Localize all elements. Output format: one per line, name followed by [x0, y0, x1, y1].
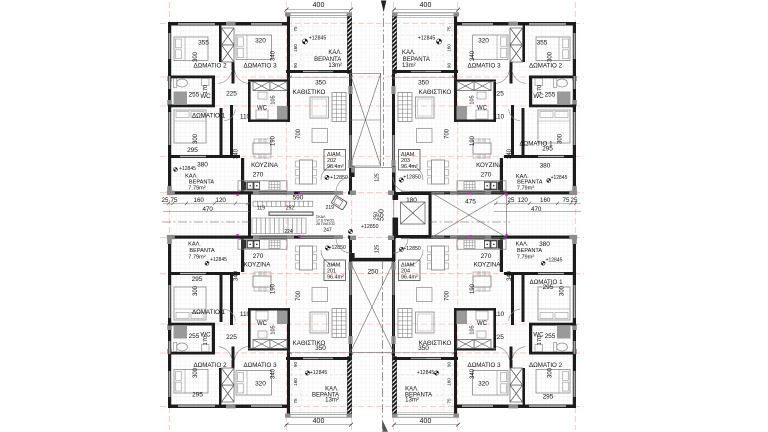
apt 204 wc1 fixtures	[553, 343, 567, 352]
apt 201 wall wc/bedroom1	[168, 323, 215, 326]
apt 202 veranda 7.79 end wall	[168, 191, 252, 194]
elevator shaft	[396, 192, 432, 195]
apt 201 entry door leaf	[350, 239, 352, 254]
apt 203 wardrobe corridor	[474, 82, 491, 91]
svg-text:590: 590	[293, 195, 304, 202]
apt 202 coffee table	[312, 129, 328, 143]
svg-text:ΔΩΜΑΤΙΟ 2: ΔΩΜΑΤΙΟ 2	[529, 62, 563, 69]
apt 203 wall wc/bedroom1	[529, 105, 576, 108]
svg-text:190: 190	[470, 135, 476, 146]
svg-text:105: 105	[271, 95, 277, 104]
apt 204 bookshelf	[398, 309, 412, 338]
apt 201 bedroom door mullion + arcs	[232, 347, 235, 369]
svg-text:96.4m²: 96.4m²	[401, 164, 418, 170]
apt 201 wc2 walls	[248, 348, 288, 350]
svg-text:WC: WC	[257, 321, 268, 327]
apt 201 veranda/living wall with sliding door	[286, 357, 352, 360]
apt 203 outer side wall	[573, 22, 576, 192]
svg-text:190: 190	[271, 283, 277, 294]
svg-text:224: 224	[284, 229, 293, 235]
svg-text:ΔΩΜΑΤΙΟ 2: ΔΩΜΑΤΙΟ 2	[529, 362, 563, 369]
svg-text:255: 255	[545, 333, 556, 340]
apt 203 veranda hatched side wall	[392, 17, 396, 74]
svg-text:25: 25	[162, 197, 169, 204]
svg-text:WC: WC	[477, 321, 488, 327]
apt 204 veranda/living wall with sliding door	[393, 357, 459, 360]
svg-text:700: 700	[444, 290, 450, 301]
apt 202 wardrobe rooms2-3	[222, 28, 235, 45]
svg-text:ΚΑΛ.: ΚΑΛ.	[328, 50, 342, 56]
svg-text:250: 250	[368, 269, 379, 276]
apt 204 coffee table	[417, 288, 433, 302]
svg-text:90: 90	[293, 63, 298, 69]
apt 201 veranda 13m2 railing	[286, 416, 352, 418]
apt 203 front (outer) wall	[454, 22, 576, 26]
svg-text:340: 340	[234, 148, 240, 159]
svg-text:170: 170	[537, 336, 543, 345]
apt 203 bed room3	[473, 35, 509, 60]
svg-text:270: 270	[481, 172, 492, 179]
apt 202 wc1 fixtures	[173, 79, 187, 88]
apt 202 id box	[324, 150, 346, 171]
apt 204 veranda 13m2 railing	[393, 416, 459, 418]
svg-text:295: 295	[542, 146, 553, 153]
apt 201 outer side wall	[168, 238, 171, 408]
apt 201 bed room1	[174, 287, 206, 320]
apt 204 sink	[484, 240, 497, 249]
apt 204 east wall (living, to court)	[392, 236, 395, 357]
svg-text:90: 90	[293, 362, 298, 368]
svg-text:295: 295	[543, 394, 554, 401]
svg-text:270: 270	[481, 253, 492, 260]
svg-text:ΚΑΘΙΣΤΙΚΟ: ΚΑΘΙΣΤΙΚΟ	[419, 89, 452, 96]
apt 203 wc2 fixtures	[477, 92, 486, 99]
svg-text:170: 170	[537, 85, 543, 94]
apartment 202 (TL quadrant)	[167, 2, 353, 195]
apt 201 wardrobe corridor	[253, 340, 270, 349]
svg-text:75: 75	[293, 398, 298, 404]
svg-text:700: 700	[296, 128, 302, 139]
svg-text:170: 170	[203, 85, 209, 94]
apt 204 dining table	[432, 246, 445, 270]
apt 202 veranda/living wall with sliding door	[286, 70, 352, 73]
svg-text:160: 160	[446, 378, 451, 386]
svg-text:160: 160	[293, 378, 298, 386]
svg-text:340: 340	[507, 270, 513, 281]
svg-text:320: 320	[255, 38, 266, 45]
apt 203 door arcs	[408, 165, 423, 180]
svg-text:110: 110	[240, 311, 251, 318]
svg-text:75: 75	[446, 26, 451, 32]
apt 202 outer side wall	[168, 22, 171, 192]
entry door arcs + labels	[336, 177, 351, 192]
apt 201 bed room2	[174, 370, 208, 394]
svg-text:ΚΟΥΖΙΝΑ: ΚΟΥΖΙΝΑ	[476, 162, 504, 169]
svg-text:300: 300	[193, 133, 199, 144]
svg-text:13m²: 13m²	[325, 398, 339, 404]
svg-text:+12850: +12850	[403, 175, 421, 181]
svg-text:+12845: +12845	[417, 370, 435, 376]
svg-text:160: 160	[540, 197, 551, 204]
apt 202 wc2 walls	[248, 80, 288, 82]
central stair hall walls	[162, 1, 582, 432]
stair handrail	[269, 212, 313, 215]
apt 202 sink	[247, 182, 260, 191]
svg-text:300: 300	[547, 51, 553, 62]
dimension band right	[494, 204, 581, 212]
svg-text:400: 400	[420, 418, 432, 425]
svg-text:ΔΩΜΑΤΙΟ 3: ΔΩΜΑΤΙΟ 3	[243, 362, 277, 369]
apartment 201 (BL quadrant)	[167, 235, 353, 425]
svg-text:96.4m²: 96.4m²	[401, 275, 418, 281]
apt 201 fridge	[241, 240, 247, 249]
svg-text:225: 225	[226, 91, 237, 98]
apt 204 living room west wall	[454, 340, 457, 408]
apt 202 living room west wall	[287, 22, 290, 90]
svg-text:320: 320	[478, 38, 489, 45]
svg-text:295: 295	[187, 147, 198, 154]
apt 203 dining table	[432, 160, 445, 184]
apt 201 dining table	[300, 246, 313, 270]
apt 201 wardrobe rooms2-3	[222, 385, 235, 402]
apt 203 veranda dashed floor lines	[451, 19, 453, 69]
apt 203 veranda 13m2 railing	[393, 12, 459, 14]
svg-text:ΚΑΘΙΣΤΙΚΟ: ΚΑΘΙΣΤΙΚΟ	[293, 89, 326, 96]
svg-text:125: 125	[375, 173, 381, 182]
svg-text:105: 105	[271, 325, 277, 334]
apt 202 wall bedroom1/veranda	[168, 155, 240, 158]
apt 201 coffee table	[312, 288, 328, 302]
apt 201 sink	[247, 240, 260, 249]
svg-text:300: 300	[560, 285, 566, 296]
svg-text:ΔΩΜΑΤΙΟ 3: ΔΩΜΑΤΙΟ 3	[467, 62, 501, 69]
svg-text:340: 340	[470, 50, 476, 61]
apt 201 sofa	[310, 312, 329, 333]
svg-text:190: 190	[470, 283, 476, 294]
apt 203 kitchen table	[473, 143, 491, 154]
svg-text:340: 340	[507, 148, 513, 159]
svg-text:470: 470	[203, 206, 214, 213]
apt 201 veranda hatched side wall	[347, 357, 351, 414]
svg-text:160: 160	[446, 44, 451, 52]
svg-text:+12845: +12845	[210, 257, 227, 263]
svg-text:225: 225	[493, 334, 504, 341]
apt 201 bed room3	[236, 371, 272, 396]
apt 201 stove	[269, 240, 280, 249]
apt 202 east wall (living, to court)	[349, 73, 352, 194]
svg-text:ΒΕΡΑΝΤΑ: ΒΕΡΑΝΤΑ	[314, 57, 341, 63]
apt 204 veranda dashed floor lines	[451, 361, 453, 411]
apt 204 bed room2	[536, 370, 570, 394]
apt 204 veranda hatched side wall	[392, 357, 396, 414]
apt 201 id box	[324, 260, 346, 281]
svg-text:219: 219	[326, 205, 335, 211]
apt 203 wc1 fixtures	[553, 79, 567, 88]
south flag	[383, 421, 388, 432]
svg-text:ΚΑΘΙΣΤΙΚΟ: ΚΑΘΙΣΤΙΚΟ	[293, 340, 326, 347]
svg-text:120: 120	[518, 197, 529, 204]
apt 201 kitchen counter	[238, 240, 287, 250]
north flag	[381, 1, 386, 13]
svg-text:ΔΩΜΑΤΙΟ 3: ΔΩΜΑΤΙΟ 3	[243, 62, 277, 69]
apt 201 wall bedrooms/wc	[168, 352, 215, 355]
drafting grid over building floor	[168, 22, 577, 408]
svg-text:340: 340	[234, 270, 240, 281]
apt 202 veranda dashed floor lines	[291, 19, 293, 69]
svg-text:ΔΩΜΑΤΙΟ 2: ΔΩΜΑΤΙΟ 2	[193, 362, 227, 369]
apt 204 wall bedrooms/wc	[529, 352, 576, 355]
svg-text:7.79m²: 7.79m²	[517, 254, 535, 260]
apt 204 kitchen table	[473, 276, 491, 287]
svg-text:247: 247	[323, 228, 332, 234]
svg-text:13m²: 13m²	[405, 398, 419, 404]
apt 203 wc2 walls	[456, 80, 496, 82]
apt 204 wc2 fixtures	[477, 331, 486, 338]
apt 202 bookshelf	[332, 93, 346, 122]
apt 203 sofa	[416, 97, 435, 118]
court void bottom strip	[350, 262, 394, 353]
svg-text:295: 295	[192, 392, 203, 399]
apt 204 sofa	[416, 312, 435, 333]
apt 203 east wall (living, to court)	[392, 73, 395, 194]
svg-text:125: 125	[375, 245, 381, 254]
apt 202 front (outer) wall	[168, 22, 290, 26]
corridor walls	[352, 166, 355, 177]
svg-text:400: 400	[313, 418, 325, 425]
svg-text:ΚΑΛ.: ΚΑΛ.	[516, 242, 529, 248]
svg-text:160: 160	[293, 44, 298, 52]
svg-text:75: 75	[563, 197, 570, 204]
apt 201 veranda dashed floor lines	[291, 361, 293, 411]
apt 204 outer side wall	[573, 238, 576, 408]
svg-text:7.79m²: 7.79m²	[188, 255, 206, 261]
apt 204 wall bedroom1/veranda	[504, 272, 576, 275]
apt 204 bed room1	[538, 287, 570, 320]
svg-text:+12845: +12845	[418, 36, 436, 42]
svg-text:+12845: +12845	[546, 257, 563, 263]
svg-text:+12845: +12845	[309, 36, 327, 42]
apt 202 wc2 fixtures	[258, 92, 267, 99]
svg-text:75: 75	[293, 26, 298, 32]
svg-text:ΒΕΡΑΝΤΑ: ΒΕΡΑΝΤΑ	[403, 57, 430, 63]
apt 203 bookshelf	[398, 93, 412, 122]
svg-text:340: 340	[470, 368, 476, 379]
svg-text:355: 355	[198, 40, 209, 47]
apt 204 south wall kitchen/living	[408, 236, 504, 239]
svg-text:355: 355	[537, 40, 548, 47]
apt 201 living room west wall	[287, 340, 290, 408]
svg-text:255: 255	[189, 333, 200, 340]
svg-text:300: 300	[193, 51, 199, 62]
apt 203 bed room1	[538, 110, 570, 143]
apt 204 wardrobe corridor	[474, 340, 491, 349]
svg-text:+12850: +12850	[403, 246, 421, 252]
apt 204 kitchen west wall	[500, 239, 503, 272]
svg-text:25: 25	[571, 197, 578, 204]
apt 203 kitchen west wall	[500, 158, 503, 191]
svg-text:255: 255	[189, 92, 200, 99]
svg-text:ΔΩΜΑΤΙΟ 1: ΔΩΜΑΤΙΟ 1	[192, 309, 226, 316]
court void top strip	[350, 74, 381, 167]
svg-text:7.79m²: 7.79m²	[188, 186, 206, 192]
apt 204 kitchen counter	[457, 240, 506, 250]
svg-text:ΚΟΥΖΙΝΑ: ΚΟΥΖΙΝΑ	[474, 261, 502, 268]
apt 202 fridge	[241, 182, 247, 191]
apt 204 veranda 7.79 end wall	[492, 236, 576, 239]
svg-text:160: 160	[194, 197, 205, 204]
svg-text:+12850: +12850	[361, 224, 379, 230]
apt 204 bed room3	[473, 371, 509, 396]
svg-text:255: 255	[545, 92, 556, 99]
svg-text:28 ΠΛΑΤΟΣ: 28 ΠΛΑΤΟΣ	[316, 222, 336, 226]
apt 203 veranda/living wall with sliding door	[393, 70, 459, 73]
svg-text:+12845: +12845	[310, 370, 328, 376]
svg-text:96.4m²: 96.4m²	[327, 164, 344, 170]
apt 202 kitchen counter	[238, 181, 287, 191]
apt 204 bedroom door mullion + arcs	[510, 347, 513, 369]
svg-text:ΚΑΛ.: ΚΑΛ.	[402, 50, 416, 56]
svg-text:75: 75	[171, 197, 178, 204]
svg-text:400: 400	[420, 2, 432, 9]
svg-text:225: 225	[226, 334, 237, 341]
apt 203 bed room2	[536, 37, 570, 61]
svg-text:90: 90	[446, 63, 451, 69]
svg-text:25: 25	[508, 197, 515, 204]
apt 204 wall wc/bedroom1	[529, 323, 576, 326]
svg-text:295: 295	[192, 276, 203, 283]
svg-text:110: 110	[494, 311, 505, 318]
apt 202 entry door leaf	[350, 177, 352, 192]
svg-text:700: 700	[444, 128, 450, 139]
apt 201 east wall (living, to court)	[349, 236, 352, 357]
svg-text:90: 90	[446, 362, 451, 368]
apt 201 wall bedroom1/veranda	[168, 272, 240, 275]
apt 201 kitchen table	[253, 276, 271, 287]
apt 203 sink	[484, 182, 497, 191]
apt 202 kitchen table	[253, 143, 271, 154]
apt 201 veranda 7.79 end wall	[168, 236, 252, 239]
apt 202 wall wc/bedroom1	[168, 105, 215, 108]
apt 202 bed room3	[236, 35, 272, 60]
staircase upper flight treads	[252, 201, 254, 206]
svg-text:WC: WC	[257, 106, 268, 112]
apt 202 kitchen west wall	[241, 158, 244, 191]
apt 203 bedroom door mullion + arcs	[510, 62, 513, 84]
apt 201 wc1 fixtures	[173, 343, 187, 352]
svg-text:252: 252	[286, 205, 295, 211]
apt 204 id box	[399, 260, 421, 281]
apt 201 door arcs	[321, 250, 336, 265]
apt 203 wall bedroom1/veranda	[504, 155, 576, 158]
svg-text:ΒΕΡΑΝΤΑ: ΒΕΡΑΝΤΑ	[189, 248, 215, 254]
svg-text:550: 550	[379, 209, 386, 221]
apt 204 wardrobe rooms2-3	[510, 385, 523, 402]
svg-text:110: 110	[494, 114, 505, 121]
svg-text:105: 105	[470, 95, 476, 104]
apt 203 fridge	[498, 182, 504, 191]
staircase lower flight treads	[251, 218, 253, 234]
svg-text:170: 170	[203, 336, 209, 345]
svg-text:13m²: 13m²	[328, 63, 342, 69]
apt 202 bed room2	[174, 37, 208, 61]
svg-text:320: 320	[255, 381, 266, 388]
apt 203 wall bedrooms/wc	[529, 76, 576, 79]
svg-text:700: 700	[296, 290, 302, 301]
apt 201 south wall kitchen/living	[240, 236, 336, 239]
apt 204 wc2 walls	[456, 348, 496, 350]
apartment 204 (BR quadrant)	[391, 235, 577, 425]
apt 203 living room west wall	[454, 22, 457, 90]
apt 202 dining table	[300, 160, 313, 184]
apt 203 veranda 7.79 end wall	[492, 191, 576, 194]
svg-text:340: 340	[271, 50, 277, 61]
apt 204 entry door leaf	[392, 239, 394, 254]
apt 203 kitchen counter	[457, 181, 506, 191]
apt 202 south wall kitchen/living	[240, 191, 336, 194]
apt 203 entry door leaf	[392, 177, 394, 192]
svg-text:75: 75	[446, 398, 451, 404]
apt 201 kitchen west wall	[241, 239, 244, 272]
apt 202 wall bedrooms/wc	[168, 76, 215, 79]
svg-text:105: 105	[470, 325, 476, 334]
apt 203 id box	[399, 150, 421, 171]
svg-text:+12845: +12845	[179, 166, 196, 172]
svg-text:7.79m²: 7.79m²	[517, 185, 535, 191]
magenta markers	[236, 192, 507, 237]
svg-text:300: 300	[193, 285, 199, 296]
svg-text:+12850: +12850	[328, 245, 346, 251]
apt 202 bed room1	[174, 110, 206, 143]
svg-text:ΔΩΜΑΤΙΟ 2: ΔΩΜΑΤΙΟ 2	[193, 62, 227, 69]
svg-text:ΔΩΜΑΤΙΟ 3: ΔΩΜΑΤΙΟ 3	[467, 362, 501, 369]
court void with cross (right)	[432, 193, 507, 238]
svg-text:295: 295	[543, 284, 554, 291]
apt 204 fridge	[498, 240, 504, 249]
axis grid (red dashed)	[160, 2, 584, 430]
apt 202 sofa	[310, 97, 329, 118]
svg-text:380: 380	[197, 162, 208, 169]
svg-text:110: 110	[240, 114, 251, 121]
svg-text:270: 270	[253, 253, 264, 260]
apt 203 stove	[464, 182, 475, 191]
svg-text:350: 350	[418, 80, 429, 87]
apt 202 veranda hatched side wall	[347, 17, 351, 74]
svg-text:380: 380	[540, 163, 551, 170]
svg-text:96.4m²: 96.4m²	[327, 275, 344, 281]
apt 203 coffee table	[417, 129, 433, 143]
svg-text:180: 180	[406, 197, 417, 204]
top dimension lines	[285, 10, 459, 425]
svg-text:320: 320	[478, 381, 489, 388]
svg-text:400: 400	[313, 2, 325, 9]
svg-text:ΚΑΛ.: ΚΑΛ.	[188, 242, 201, 248]
svg-text:ΒΕΡΑΝΤΑ: ΒΕΡΑΝΤΑ	[517, 248, 543, 254]
svg-text:WC: WC	[477, 106, 488, 112]
svg-text:13m²: 13m²	[402, 63, 416, 69]
svg-text:340: 340	[271, 368, 277, 379]
apt 201 front (outer) wall	[168, 405, 290, 409]
center lines (dash-dot)	[162, 2, 510, 432]
apt 204 door arcs	[408, 250, 423, 265]
svg-text:350: 350	[315, 80, 326, 87]
svg-text:475: 475	[465, 199, 476, 206]
apt 203 wardrobe rooms2-3	[510, 28, 523, 45]
svg-text:225: 225	[493, 91, 504, 98]
apt 202 wardrobe corridor	[253, 82, 270, 91]
svg-text:119: 119	[257, 205, 265, 211]
svg-text:ΚΟΥΖΙΝΑ: ΚΟΥΖΙΝΑ	[244, 261, 272, 268]
apt 202 veranda 13m2 railing	[286, 12, 352, 14]
